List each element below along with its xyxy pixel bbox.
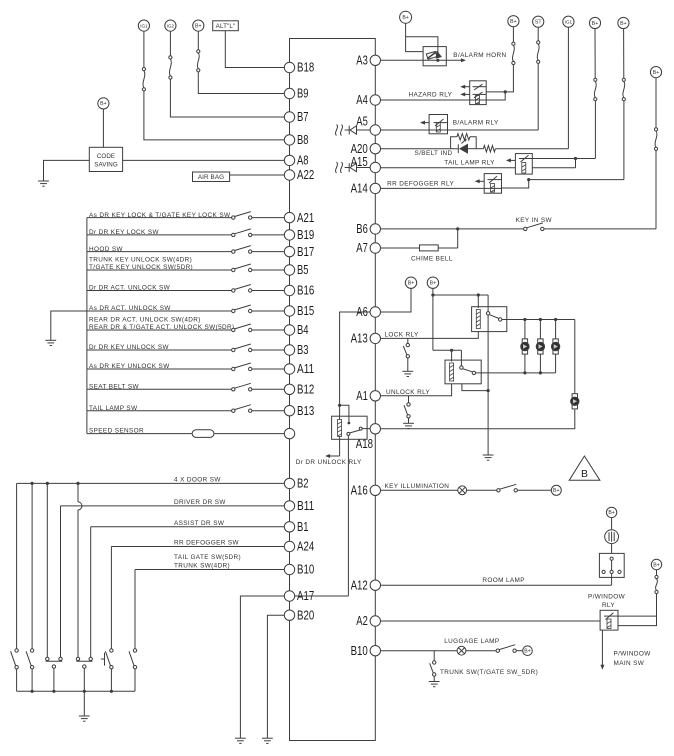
wire to door motor 2 — [539, 320, 541, 339]
connector pin B11 — [284, 501, 294, 511]
relay LOCK RLY box — [472, 307, 507, 332]
svg-text:B19: B19 — [297, 228, 314, 242]
wire defogger relay to B+ drop — [502, 180, 529, 188]
coil of lock relay — [476, 310, 480, 329]
svg-text:A22: A22 — [297, 168, 314, 182]
supply B+ key illumination — [551, 485, 561, 495]
svg-text:A5: A5 — [356, 115, 368, 129]
svg-text:B20: B20 — [297, 608, 314, 622]
wire pin A6 to B+ — [381, 288, 412, 312]
ETACS module box — [290, 39, 376, 741]
wire IG2 to fuse — [169, 32, 171, 56]
wire ASSIST DR SW to pin B1 — [91, 526, 285, 528]
wire switch to pin B15 — [252, 310, 284, 312]
svg-text:ROOM LAMP: ROOM LAMP — [482, 577, 524, 584]
svg-text:B13: B13 — [297, 404, 314, 418]
wire assist dr sw drop — [90, 527, 92, 657]
connector pin A1 — [370, 391, 380, 401]
wire door sw 4 drop with hop — [77, 483, 79, 502]
svg-text:ST: ST — [535, 20, 542, 26]
wire IG1 to fuse — [143, 32, 145, 68]
junction door sw 2 — [30, 482, 33, 485]
wire switch to B+ luggage — [516, 650, 522, 652]
wire pin B20 to ground — [267, 615, 284, 738]
wire unlock pivot to ground line — [462, 384, 488, 391]
svg-text:B9: B9 — [297, 87, 309, 101]
wire fuse down to hazard relay — [486, 65, 513, 92]
switch of p/window relay — [604, 615, 618, 617]
svg-text:B11: B11 — [297, 499, 314, 513]
svg-text:S/BELT IND: S/BELT IND — [415, 150, 453, 157]
supply B+ defogger — [618, 17, 629, 28]
svg-text:B2: B2 — [297, 477, 309, 491]
svg-text:4 X DOOR SW: 4 X DOOR SW — [174, 477, 221, 484]
wire switch to pin A11 — [252, 368, 284, 370]
svg-text:RR DEFOGGER RLY: RR DEFOGGER RLY — [387, 180, 454, 187]
connector pin B6 — [370, 224, 380, 234]
connector pin B17 — [284, 246, 294, 256]
switch of b/alarm relay — [434, 122, 448, 124]
unlock rail wire — [481, 372, 555, 374]
wire lock common to ground — [487, 315, 489, 455]
room lamp switch box — [599, 553, 624, 577]
wire coil to left arrow — [339, 437, 341, 457]
switch for pin A11 — [232, 367, 235, 370]
connector pin A8 — [284, 155, 294, 165]
switch TRUNK SW — [433, 661, 436, 664]
arrow to p/window main sw — [601, 630, 603, 666]
wire switch to pin B19 — [252, 234, 284, 236]
switch for pin B17 — [232, 250, 235, 253]
svg-text:KEY ILLUMINATION: KEY ILLUMINATION — [385, 483, 450, 490]
wire bus to bank ground — [83, 690, 86, 693]
connector pin A15 — [370, 162, 380, 172]
supply ST — [533, 16, 544, 27]
connector pin A22 — [284, 170, 294, 180]
switch below A1 to ground — [408, 396, 410, 403]
connector pin A14 — [370, 183, 380, 193]
coil of p/window relay — [607, 619, 611, 629]
wire B+ to fuse tail — [594, 29, 596, 79]
lock rail wire — [507, 319, 575, 321]
fuse on tail B+ line — [594, 78, 597, 81]
connector pin B4 — [284, 325, 294, 335]
svg-text:B8: B8 — [297, 133, 309, 147]
wire bus to A21 switch — [87, 217, 232, 219]
wire IG1 drop to A20 line — [567, 27, 569, 148]
branch resistor over led — [451, 137, 457, 149]
svg-text:A1: A1 — [356, 389, 368, 403]
left switch bus wire — [86, 218, 88, 434]
junction chime — [456, 227, 459, 230]
supply B+ above code saving — [98, 98, 109, 109]
svg-text:A16: A16 — [351, 484, 368, 498]
break symbol at A5 diode — [336, 125, 338, 136]
connector pin B20 — [284, 610, 294, 620]
wire pin B6 to key in switch — [381, 228, 524, 230]
svg-text:Dr DR UNLOCK RLY: Dr DR UNLOCK RLY — [296, 459, 362, 466]
svg-text:CODE: CODE — [97, 153, 115, 160]
ground below A1 switch — [403, 422, 414, 424]
door lock motor M4 — [572, 394, 577, 398]
junction door sw 4 — [76, 482, 79, 485]
wire bulb to room lamp switch — [611, 544, 613, 554]
svg-text:B7: B7 — [297, 110, 309, 124]
ground for trunk switch — [429, 681, 440, 683]
switch for pin B5 — [232, 268, 235, 271]
coil of hazard relay — [476, 96, 480, 105]
connector pin A16 — [370, 485, 380, 495]
wire switch to pin A21 — [252, 217, 284, 219]
supply B+ tail lamp — [589, 17, 600, 28]
junction B+2 top — [431, 293, 434, 296]
svg-text:CHIME BELL: CHIME BELL — [411, 255, 453, 262]
arrow tail lamp rly output — [509, 159, 515, 161]
code saving unit — [89, 147, 122, 171]
room lamp bulb — [605, 530, 619, 544]
connector pin B8 — [284, 135, 294, 145]
svg-text:LOCK RLY: LOCK RLY — [385, 331, 420, 338]
wire lamp to switch — [467, 489, 497, 491]
door switch common bus — [17, 690, 135, 692]
connector pin A2 — [370, 616, 380, 626]
wire pin A3 through horn box — [381, 59, 447, 61]
connector pin A4 — [370, 95, 380, 105]
connector pin A3 — [370, 55, 380, 65]
svg-text:A24: A24 — [297, 540, 314, 554]
wire to door motor 3 — [555, 320, 557, 339]
svg-text:B15: B15 — [297, 304, 314, 318]
wire relay loop to B+ drop — [618, 615, 657, 617]
switch for pin B15 — [232, 309, 235, 312]
wire door sw 1 drop — [16, 483, 18, 648]
relay UNLOCK RLY box — [445, 360, 481, 384]
wire tail lamp relay to B+ drop — [532, 158, 595, 160]
switch for pin B12 — [232, 388, 235, 391]
hazard relay switches — [473, 86, 487, 88]
wire chime branch — [457, 229, 459, 248]
wire rr defogger sw drop — [110, 547, 112, 649]
wire fuse to p/window relay — [618, 594, 657, 626]
svg-text:A14: A14 — [351, 182, 368, 196]
wire pin A14 through defogger relay — [381, 187, 502, 189]
svg-text:MAIN SW: MAIN SW — [614, 660, 645, 667]
wire door sw 3 drop — [46, 483, 48, 657]
wire code saving to pin A8 — [123, 159, 285, 161]
arrow b/alarm rly output — [424, 122, 430, 124]
burglar alarm horn box — [423, 47, 446, 66]
wire pin A20 to led — [381, 148, 459, 150]
junction trunk sw — [433, 651, 435, 661]
svg-text:RLY: RLY — [602, 602, 615, 609]
connector pin A7 — [370, 243, 380, 253]
supply B+ above hazard relay — [508, 16, 519, 27]
wire fuse to defogger line — [623, 101, 625, 180]
svg-text:AIR BAG: AIR BAG — [198, 174, 224, 181]
wire RR DEFOGGER SW to pin A24 — [111, 546, 284, 548]
wire fuse to pin B8 — [144, 91, 284, 140]
wire bus to ground tap — [51, 311, 87, 340]
svg-text:TAIL LAMP RLY: TAIL LAMP RLY — [444, 159, 495, 166]
connector pin B5 — [284, 265, 294, 275]
diode D at pin A15 — [345, 167, 350, 169]
coil of b/alarm relay — [436, 123, 440, 132]
supply B+ p/window — [651, 559, 661, 569]
svg-text:P/WINDOW: P/WINDOW — [614, 650, 652, 657]
internal stub terminal — [340, 405, 349, 421]
connector pin A5 — [370, 125, 380, 135]
node AIR BAG — [193, 172, 230, 182]
wire DRIVER DR SW to pin B11 — [61, 505, 285, 507]
switch of lock relay — [486, 312, 489, 315]
svg-text:LUGGAGE LAMP: LUGGAGE LAMP — [444, 638, 499, 645]
svg-text:B18: B18 — [297, 61, 314, 75]
wire switch to pin B17 — [252, 251, 284, 253]
switch of Dr DR unlock relay — [347, 432, 350, 435]
svg-text:B+: B+ — [653, 562, 660, 568]
svg-text:TRUNK KEY UNLOCK SW(4DR): TRUNK KEY UNLOCK SW(4DR) — [89, 257, 192, 264]
wire lock rail to motor 4 — [574, 320, 576, 394]
wire bus to A11 switch — [87, 368, 232, 370]
wire door sw 2 drop — [31, 483, 33, 648]
connector pin B15 — [284, 306, 294, 316]
connector pin B19 — [284, 230, 294, 240]
fuse on B+ line — [197, 50, 200, 53]
ground for B20 — [262, 737, 273, 739]
connector pin A17 — [284, 591, 294, 601]
wire bus to B19 switch — [87, 234, 232, 236]
switch of unlock relay — [460, 366, 463, 369]
connector pin B2 — [284, 478, 294, 488]
wire lamp to luggage switch — [466, 650, 496, 652]
svg-text:B17: B17 — [297, 245, 314, 259]
connector pin A20 — [370, 144, 380, 154]
svg-text:B3: B3 — [297, 343, 309, 357]
switch for pin B19 — [232, 233, 235, 236]
wire tail gate sw drop — [134, 570, 136, 649]
wire pin A5 to ST drop — [381, 129, 539, 131]
svg-text:KEY IN SW: KEY IN SW — [516, 217, 553, 224]
tail gate switch — [133, 649, 136, 652]
coil of unlock relay — [450, 363, 454, 381]
svg-text:B1: B1 — [297, 520, 309, 534]
wire B+2 to unlock relay — [433, 349, 462, 351]
wire pin A4 to hazard relay — [381, 92, 506, 100]
svg-text:B+: B+ — [195, 23, 202, 29]
svg-text:B12: B12 — [297, 383, 314, 397]
svg-text:A3: A3 — [356, 54, 368, 68]
wire to door motor 1 — [524, 320, 526, 339]
wire bus to B4 switch — [87, 329, 232, 331]
wire pin B10 to luggage lamp — [381, 650, 458, 652]
fuse on ST line — [537, 41, 540, 44]
wire switch to B+ — [517, 489, 551, 491]
svg-text:B10: B10 — [297, 563, 314, 577]
node ALT"L" — [213, 21, 239, 31]
arrow defogger rly output — [478, 180, 484, 182]
svg-text:RR DEFOGGER SW: RR DEFOGGER SW — [174, 540, 240, 547]
wire B+ to room lamp bulb — [611, 518, 613, 530]
ground for switch bus — [45, 339, 56, 341]
switch of tail lamp relay — [519, 158, 532, 160]
switch for pin B4 — [232, 328, 235, 331]
wire pin A7 to chime bell — [381, 247, 420, 249]
fuse on key in line — [654, 128, 657, 131]
svg-text:B/ALARM RLY: B/ALARM RLY — [453, 120, 499, 127]
svg-text:REAR DR ACT. UNLOCK SW(4DR): REAR DR ACT. UNLOCK SW(4DR) — [89, 317, 201, 324]
wire bus to B3 switch — [87, 349, 232, 351]
resistor after led — [483, 146, 495, 152]
supply B+ (battery) — [193, 20, 204, 31]
room lamp switch contacts — [610, 557, 613, 560]
door lock motor M2 — [538, 339, 543, 343]
svg-text:B6: B6 — [356, 222, 368, 236]
door lock motor M1 — [522, 339, 527, 343]
svg-text:ALT"L": ALT"L" — [216, 23, 236, 30]
wire B+ to code saving box — [102, 109, 104, 147]
wire switch to pin B4 — [252, 329, 284, 331]
wire 4 X DOOR SW to pin B2 — [17, 482, 285, 484]
relay Dr DR UNLOCK RLY box — [332, 416, 368, 439]
svg-text:A13: A13 — [351, 332, 368, 346]
svg-text:IG1: IG1 — [565, 20, 573, 25]
wire pin A15 to tail lamp relay — [381, 167, 516, 169]
supply B+ room lamp — [606, 507, 616, 517]
ground for A17 — [235, 737, 246, 739]
switch key illumination — [497, 489, 500, 492]
wire B+ key in to fuse — [655, 78, 657, 128]
wire switch to pin B16 — [252, 290, 284, 292]
door switch 4 (changeover) — [76, 657, 79, 660]
wire pin A2 to p/window relay — [381, 620, 601, 622]
svg-text:B+: B+ — [653, 70, 660, 76]
wire B+2 down — [432, 288, 434, 350]
wire pin A6 internal to relay coil — [340, 312, 371, 420]
connector pin B12 — [284, 384, 294, 394]
connector pin B10 — [370, 646, 380, 656]
svg-text:HAZARD RLY: HAZARD RLY — [408, 92, 452, 99]
svg-text:IG2: IG2 — [167, 23, 175, 28]
wire pin A13 to lock coil — [381, 332, 479, 339]
svg-text:DRIVER DR SW: DRIVER DR SW — [174, 499, 226, 506]
switch luggage lamp — [496, 649, 499, 652]
svg-text:A2: A2 — [356, 614, 368, 628]
svg-text:TRUNK SW(T/GATE SW_5DR): TRUNK SW(T/GATE SW_5DR) — [440, 669, 538, 676]
svg-text:ASSIST DR SW: ASSIST DR SW — [174, 520, 225, 527]
wire B+ to horn box top — [406, 23, 438, 46]
svg-text:B: B — [581, 468, 588, 480]
svg-text:B+: B+ — [402, 15, 409, 21]
svg-text:B/ALARM HORN: B/ALARM HORN — [453, 52, 506, 59]
svg-text:A7: A7 — [356, 241, 368, 255]
ground for door switch bank — [79, 715, 90, 717]
wire B+ to fuse — [512, 27, 514, 42]
svg-text:A11: A11 — [297, 362, 314, 376]
wire B+ to fuse — [197, 31, 199, 50]
ground below A13 switch — [402, 370, 413, 372]
svg-text:TRUNK SW(4DR): TRUNK SW(4DR) — [174, 563, 230, 570]
supply B+ lock 1 — [405, 277, 416, 288]
wire air bag to pin A22 — [230, 174, 285, 176]
wire fuse to tail relay line — [594, 101, 596, 159]
connector pin B16 — [284, 285, 294, 295]
ground for code saving — [38, 180, 49, 182]
switch below A13 to ground — [407, 338, 409, 343]
coil of defogger relay — [491, 184, 495, 193]
ground for lock/unlock relays — [483, 454, 494, 456]
wire motor 4 to pin A18 — [381, 410, 575, 429]
connector pin A13 — [370, 333, 380, 343]
connector pin B13 — [284, 406, 294, 416]
connector pin B18 — [284, 62, 294, 72]
wire chime bell to junction — [438, 247, 458, 249]
connector pin A12 — [370, 580, 380, 590]
wire bus to B16 switch — [87, 290, 232, 292]
wire A15 line to junction — [532, 167, 575, 169]
break symbol at A15 diode — [336, 162, 338, 173]
connector pin B7 — [284, 112, 294, 122]
svg-text:A21: A21 — [297, 211, 314, 225]
switch for pin A21 — [232, 216, 235, 219]
svg-text:B+: B+ — [430, 281, 437, 287]
svg-text:A8: A8 — [297, 154, 309, 168]
wire bus to B17 switch — [87, 251, 232, 253]
arrow B/ALARM HORN output — [446, 59, 462, 61]
chime bell element — [420, 245, 439, 251]
svg-text:TAIL GATE SW(5DR): TAIL GATE SW(5DR) — [174, 554, 241, 561]
wire B+2 to lock relay — [433, 294, 488, 296]
svg-text:B10: B10 — [351, 644, 368, 658]
connector pin B10 — [284, 564, 294, 574]
connector pin A24 — [284, 541, 294, 551]
svg-text:P/WINDOW: P/WINDOW — [588, 594, 626, 601]
connector pin B1 — [284, 522, 294, 532]
svg-text:B+: B+ — [510, 19, 517, 25]
connector pin A18 — [370, 424, 380, 434]
wire B+ to fuse defogger — [623, 29, 625, 79]
switch for pin B13 — [232, 409, 235, 412]
svg-text:B+: B+ — [608, 510, 615, 516]
junction door sw 3 — [46, 482, 49, 485]
svg-text:A20: A20 — [351, 142, 368, 156]
switch for pin B3 — [232, 348, 235, 351]
wire TRUNK SW(4DR) to pin B10 — [135, 569, 284, 571]
wire key in switch to B+ drop — [544, 228, 656, 230]
wire resistor to IG1 drop — [495, 148, 568, 150]
wire switch to pin B3 — [252, 349, 284, 351]
relay B/ALARM RLY box — [429, 115, 447, 134]
wire bus to B15 switch — [87, 310, 232, 312]
wire pin A12 to room lamp switch — [381, 584, 612, 586]
wire fuse to pin B9 — [198, 72, 284, 94]
svg-text:B+: B+ — [524, 649, 531, 655]
wire B+ to p/window fuse — [656, 570, 658, 576]
supply IG2 — [165, 20, 176, 31]
connector pin B3 — [284, 345, 294, 355]
svg-text:A4: A4 — [356, 93, 368, 107]
supply IG1 — [138, 20, 149, 31]
wire ALT"L" to pin B18 — [225, 31, 284, 68]
wire pin A16 to lamp — [381, 489, 458, 491]
svg-text:IG1: IG1 — [140, 23, 148, 28]
supply IG1 right — [563, 16, 574, 27]
key illumination lamp — [458, 486, 467, 495]
luggage lamp — [457, 646, 466, 655]
door switch 1 — [15, 649, 18, 652]
supply B+ lock 2 — [427, 277, 438, 288]
arrow Dr DR unlock rly output — [329, 455, 340, 457]
svg-text:B4: B4 — [297, 323, 309, 337]
